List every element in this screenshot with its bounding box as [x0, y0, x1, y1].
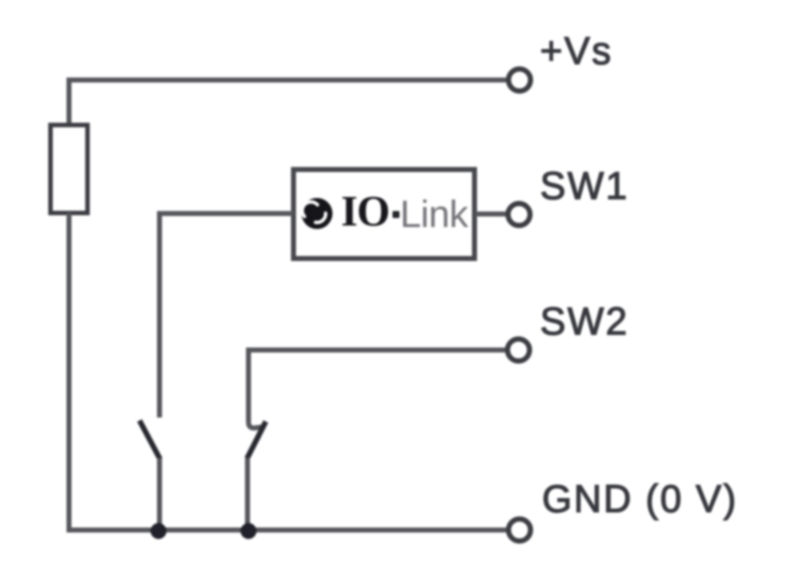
terminal SW2	[508, 339, 530, 361]
svg-text:SW1: SW1	[540, 165, 629, 208]
terminal GND	[509, 519, 531, 541]
resistor R1	[51, 125, 88, 213]
terminal +Vs	[509, 69, 531, 91]
switch S2 blade	[247, 422, 266, 459]
junction dot at S1 / bottom wire	[151, 523, 167, 539]
svg-text:GND (0 V): GND (0 V)	[542, 478, 738, 521]
junction dot at S2 / bottom wire	[241, 523, 257, 539]
wire from IO-Link box right to SW1 terminal	[475, 212, 507, 217]
IO-Link box U1	[294, 170, 475, 259]
wire from +Vs terminal left along top and down to resistor	[69, 80, 506, 125]
wire from resistor bottom down and along bottom to GND terminal	[69, 213, 507, 530]
svg-text:Link: Link	[400, 194, 469, 236]
svg-text:SW2: SW2	[540, 301, 629, 344]
IO-Link logo symbol	[302, 198, 333, 229]
wire from switch S1 bottom to junction	[157, 458, 162, 530]
terminal SW1	[508, 204, 530, 226]
wire from IO-Link box left to switch S1 top	[160, 214, 294, 418]
wire from SW2 terminal left and down to switch S2	[249, 350, 507, 423]
switch S2 hook at top contact	[249, 423, 263, 428]
IO-Link logo hyphen dot	[393, 211, 400, 218]
svg-text:IO: IO	[341, 189, 389, 236]
svg-text:+Vs: +Vs	[540, 30, 613, 73]
wire from switch S2 bottom to junction	[245, 458, 250, 530]
switch S1 blade	[140, 421, 161, 460]
